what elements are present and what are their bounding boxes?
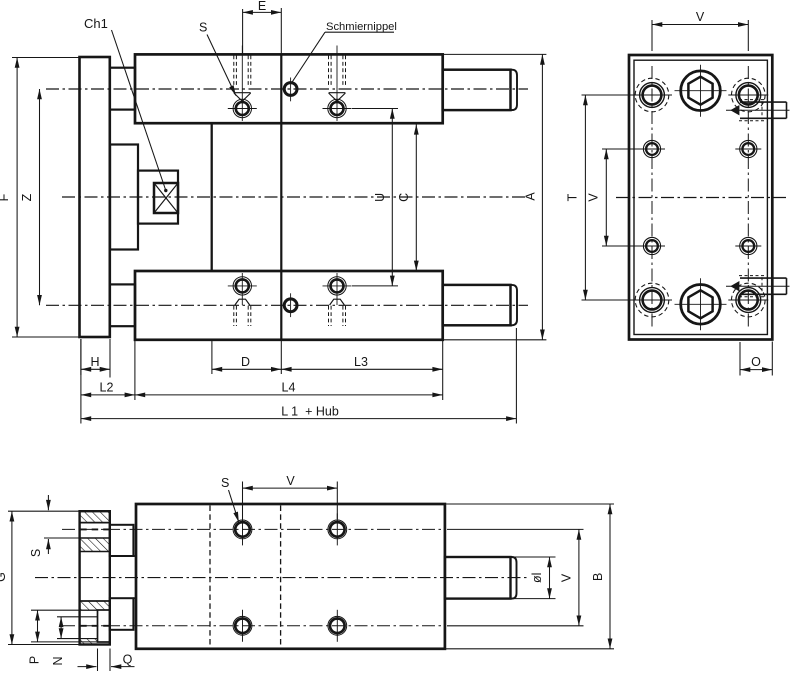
svg-text:U: U [373, 193, 387, 202]
svg-text:F: F [0, 193, 11, 201]
svg-text:S: S [199, 21, 207, 35]
svg-text:Ch1: Ch1 [84, 16, 108, 31]
svg-text:V: V [286, 474, 295, 488]
svg-text:L2: L2 [100, 380, 114, 394]
svg-text:C: C [397, 193, 411, 202]
svg-text:L4: L4 [282, 380, 296, 394]
svg-text:H: H [90, 355, 99, 369]
svg-text:Schmiernippel: Schmiernippel [326, 21, 397, 33]
svg-text:Q: Q [123, 653, 133, 667]
svg-text:L 1 + Hub: L 1 + Hub [281, 404, 339, 418]
svg-text:G: G [0, 572, 8, 582]
svg-text:V: V [560, 573, 574, 582]
svg-text:N: N [51, 656, 65, 665]
svg-text:Z: Z [20, 193, 34, 201]
svg-text:S: S [29, 549, 43, 557]
svg-text:E: E [258, 0, 266, 13]
svg-text:øl: øl [530, 573, 544, 583]
svg-text:T: T [566, 193, 580, 201]
svg-text:S: S [221, 476, 229, 490]
svg-text:A: A [524, 192, 538, 201]
svg-text:B: B [591, 573, 605, 581]
svg-text:V: V [696, 10, 705, 24]
svg-text:P: P [28, 656, 42, 664]
svg-text:L3: L3 [354, 355, 368, 369]
svg-text:V: V [587, 193, 601, 202]
svg-text:D: D [241, 355, 250, 369]
svg-text:O: O [751, 355, 761, 369]
